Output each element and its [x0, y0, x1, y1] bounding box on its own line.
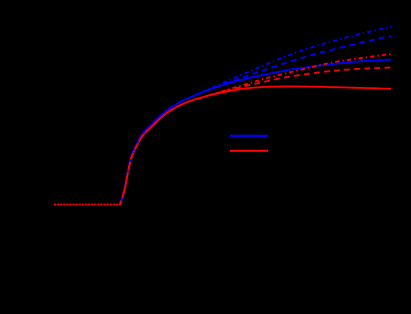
legend blue line: [230, 135, 268, 137]
noise floor blue dotted underlay: [54, 203, 120, 205]
curve red dashed: [120, 68, 391, 205]
noise floor red dotted: [54, 204, 120, 206]
legend red line: [230, 150, 268, 152]
curve red dash-dot: [120, 54, 391, 205]
curve blue dashed: [120, 36, 391, 204]
curve red solid: [120, 86, 391, 204]
curve blue dash-dot: [120, 27, 391, 205]
noise floor dark red underlay: [55, 204, 120, 206]
curve blue solid: [120, 60, 391, 205]
